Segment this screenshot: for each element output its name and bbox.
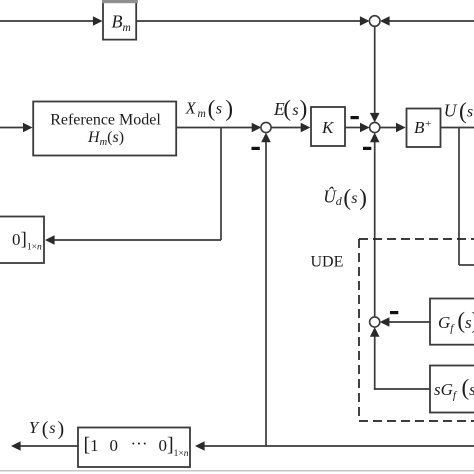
svg-text:s: s — [292, 102, 298, 119]
svg-text:0: 0 — [110, 436, 119, 455]
label Xm(s) — [185, 96, 233, 121]
svg-text:): ) — [58, 418, 65, 440]
svg-text:Reference Model: Reference Model — [50, 111, 161, 128]
wire Ud up into S2 — [370, 133, 380, 318]
summing junction S2 — [370, 122, 380, 132]
block Bm — [102, 0, 138, 41]
svg-text:UDE: UDE — [311, 254, 344, 271]
svg-text:(: ( — [459, 99, 467, 124]
svg-text:(: ( — [283, 96, 291, 121]
wire branch to 0] block — [45, 235, 221, 245]
wire input to Reference Model — [0, 123, 33, 133]
block B+ — [407, 109, 441, 148]
minus sign below S2 — [363, 147, 371, 150]
wire branch down from Xm line — [220, 128, 222, 241]
block Gf(s) — [430, 299, 474, 345]
wire S2 to B+ — [380, 123, 406, 133]
svg-text:m: m — [198, 108, 206, 120]
wire RM output to S1 — [176, 123, 261, 133]
svg-text:s: s — [351, 190, 357, 207]
wire S1 to K — [271, 123, 310, 133]
block 0]1xn — [0, 217, 44, 264]
svg-text:(: ( — [208, 96, 216, 121]
wire Bm to top sum — [137, 16, 370, 26]
block Reference Model Hm(s) — [33, 102, 176, 156]
faint page rule at bottom — [0, 470, 474, 472]
wire from right edge to top sum — [380, 16, 474, 26]
block [1 0 ... 0]1xn — [78, 428, 190, 468]
summing junction S3 — [370, 317, 380, 327]
svg-text:s: s — [467, 104, 473, 121]
svg-text:(: ( — [343, 185, 351, 210]
svg-text:): ) — [225, 96, 233, 121]
label Ud(s) — [323, 185, 367, 210]
block sGf(s) — [430, 366, 474, 413]
wire bottom from right edge to output block — [195, 441, 474, 451]
wire S0 down to S2 — [370, 26, 380, 122]
wire K to S2 — [345, 123, 370, 133]
summing junction S0 top — [369, 16, 380, 27]
minus sign at S3 — [390, 311, 398, 314]
minus sign at S1 — [252, 147, 260, 150]
label E(s) — [273, 96, 307, 121]
summing junction S1 — [261, 122, 271, 132]
svg-text:d: d — [336, 194, 343, 208]
minus sign above K wire — [351, 116, 359, 119]
svg-text:···: ··· — [131, 434, 148, 453]
label U(s) — [444, 99, 474, 124]
block K — [311, 107, 345, 146]
svg-text:): ) — [359, 185, 367, 210]
wire B+ to right edge (U) — [441, 127, 474, 129]
wire U branch to right edge — [459, 264, 474, 266]
svg-text:(: ( — [42, 418, 49, 440]
svg-text:Y: Y — [29, 418, 40, 437]
dashed UDE box — [359, 239, 474, 421]
svg-text:s: s — [216, 101, 222, 118]
svg-text:): ) — [300, 96, 308, 121]
svg-text:X: X — [185, 99, 197, 118]
wire Gf to S3 — [380, 317, 430, 327]
wire sGf to S3 — [370, 327, 430, 390]
wire input to Bm — [0, 16, 103, 26]
label Y(s) — [29, 418, 64, 440]
wire feedback up to S1 — [261, 133, 271, 446]
wire output Y(s) — [11, 441, 78, 451]
svg-text:K: K — [321, 118, 335, 137]
wire U branch down — [458, 128, 460, 266]
svg-text:[1: [1 — [84, 434, 99, 456]
svg-text:U: U — [444, 101, 458, 121]
svg-text:s: s — [49, 420, 55, 437]
